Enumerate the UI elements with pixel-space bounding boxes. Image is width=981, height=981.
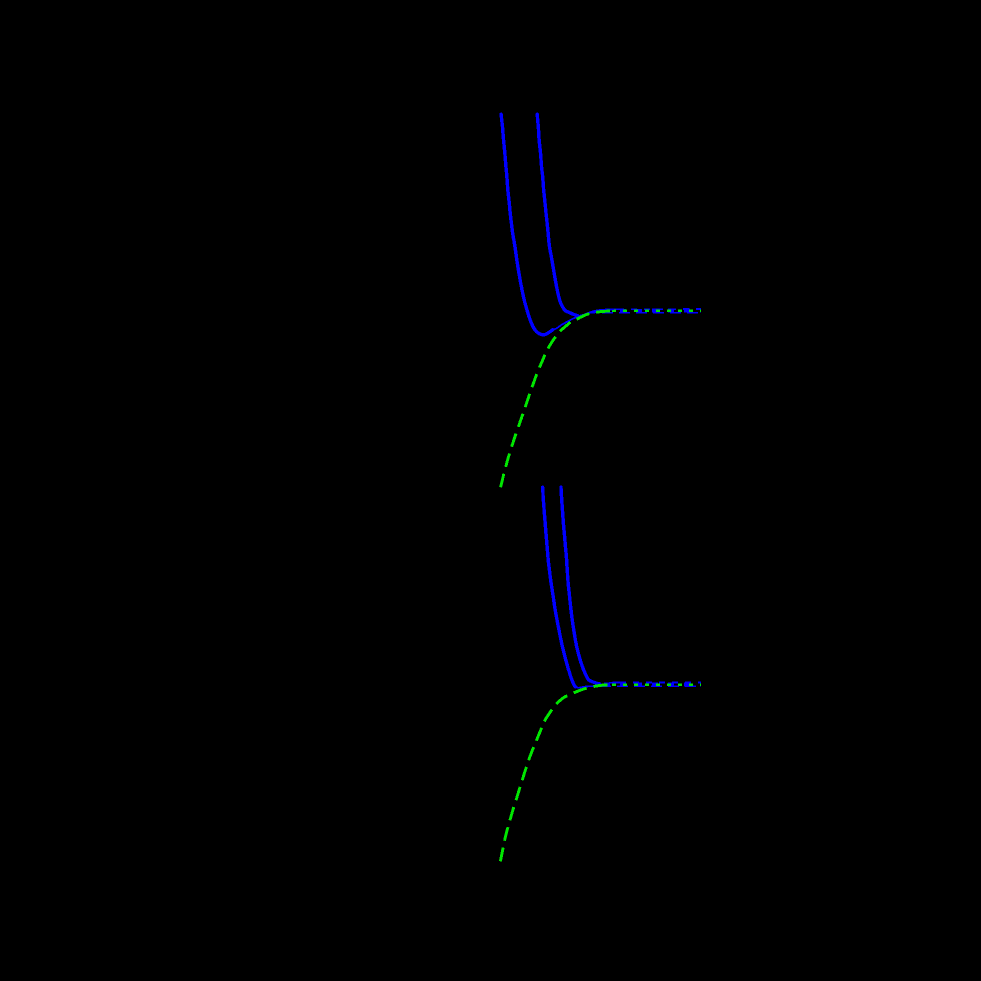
top panel: curve 2 flat asymptote segment (602, 312, 701, 314)
top panel: curve 1 rising branch toward upper asymptote (551, 309, 618, 331)
top panel: curve 1 repulsive wall with deep well (blue solid) (501, 114, 553, 334)
top panel: diabatic curve rising part (green dashed) (501, 311, 613, 487)
bottom panel: curve 4 repulsive wall (blue solid) (561, 487, 600, 684)
top panel: curve 2 shallow dip and recovery (thin branch) (576, 312, 602, 316)
bottom panel: curve 3 flat asymptote segment (600, 685, 701, 687)
bottom panel: curve 4 shallow dip and recovery (thin branch) (598, 682, 620, 684)
top panel: curve 1 flat asymptote segment (618, 308, 701, 310)
bottom panel: curve 4 flat asymptote segment (620, 682, 701, 684)
bottom panel: diabatic curve rising part (green dashed) (500, 685, 612, 862)
bottom panel: diabatic curve flat part (green short dashes) (612, 683, 701, 686)
top panel: curve 2 repulsive wall (blue solid) (537, 114, 577, 315)
top panel: asymptote mid filler (blue dashes between the two flat lines) (604, 309, 701, 313)
bottom panel: asymptote mid filler (blue dashes between the two flat lines) (604, 683, 701, 687)
bottom panel: curve 3 shallow well bottom and rise (thin branch) (575, 686, 601, 688)
top panel: diabatic curve flat part (green short dashes) (612, 310, 701, 313)
bottom panel: curve 3 repulsive wall (blue solid) (543, 487, 576, 687)
